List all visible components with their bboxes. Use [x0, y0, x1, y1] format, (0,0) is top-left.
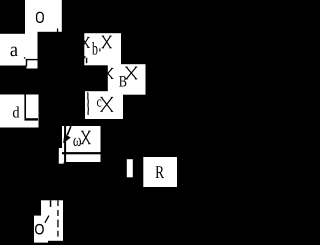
arrowhead: [63, 134, 71, 144]
label box a top-right filler under O: [25, 32, 38, 36]
omega-box bottom-left nub: [59, 161, 64, 164]
label box a small corner rect: [27, 60, 38, 69]
X4 right of B: [127, 67, 137, 79]
label box omega: [62, 126, 101, 162]
omega-box left sliver: [59, 148, 62, 163]
X1 in b box: [82, 38, 88, 48]
svg-text:R: R: [155, 162, 164, 182]
svg-text:a: a: [10, 39, 18, 61]
dot in a box: [24, 57, 25, 58]
b-box nub: [84, 56, 85, 58]
svg-text:ω: ω: [73, 130, 82, 150]
label box O-prime bump: [34, 216, 48, 243]
X2 right of b: [103, 36, 111, 48]
label box d: [0, 95, 39, 128]
omega-box vertical line: [64, 126, 66, 162]
a-box horizontal line: [26, 59, 38, 60]
arrow shaft: [67, 126, 71, 135]
O-prime solid tick: [50, 200, 52, 207]
X5 in c box: [102, 98, 113, 112]
label box O: [25, 0, 62, 32]
O-prime dashed axis line: [57, 200, 58, 206]
prime mark: [45, 216, 49, 223]
white column under b: [108, 64, 121, 93]
small white bar: [127, 159, 133, 177]
svg-text:B: B: [119, 73, 127, 90]
small corner mark right of b: [99, 49, 100, 52]
label box O-prime main: [41, 200, 63, 241]
label box b: [84, 33, 121, 65]
b-box vertical tick: [86, 58, 87, 63]
svg-text:d: d: [12, 105, 19, 122]
X3 left of B: [104, 69, 113, 79]
axis tick under O: [57, 29, 58, 33]
letter o of O-prime: [36, 225, 43, 234]
d-box horizontal line: [24, 118, 38, 120]
X6 in omega box: [82, 131, 89, 143]
a-box vertical line: [26, 59, 27, 66]
label box B: [120, 64, 145, 95]
letter O: [37, 12, 44, 22]
omega-box horizontal line: [62, 152, 101, 154]
svg-text:b: b: [92, 38, 98, 58]
label box c: [85, 91, 123, 119]
c-box left squiggle: [87, 92, 90, 115]
label box R: [143, 157, 177, 187]
d-box vertical line: [24, 95, 26, 119]
label box a: [0, 34, 38, 66]
